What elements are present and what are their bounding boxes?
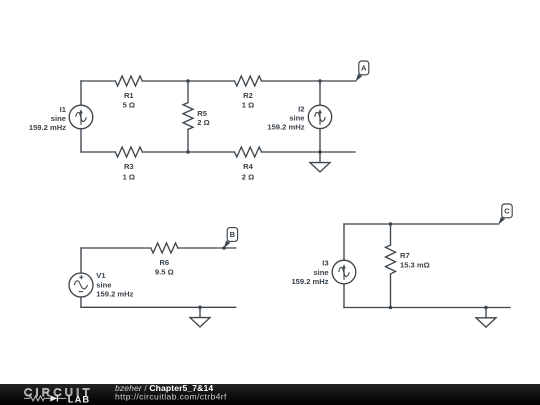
voltage source V1 sine glyph: [74, 281, 87, 289]
wire I3 left rail lower: [343, 284, 345, 308]
svg-text:A: A: [361, 64, 367, 73]
svg-text:R7: R7: [400, 251, 410, 260]
resistor R3: [115, 147, 142, 157]
svg-text:C: C: [504, 207, 510, 216]
svg-text:I3: I3: [322, 259, 328, 268]
svg-text:R2: R2: [243, 91, 253, 100]
svg-text:V1: V1: [96, 271, 106, 280]
logo resistor zigzag: [24, 396, 50, 401]
svg-text:R4: R4: [243, 162, 253, 171]
current source I1 arrow: [80, 113, 82, 125]
current source I3 circle: [332, 260, 356, 284]
current source I2 arrow: [319, 113, 321, 125]
svg-text:159.2 mHz: 159.2 mHz: [291, 277, 328, 286]
svg-text:5 Ω: 5 Ω: [123, 101, 135, 110]
flag C box: [502, 204, 512, 218]
flag A box: [359, 61, 369, 75]
resistor R7 vertical: [390, 224, 392, 245]
node dot bottom rail left: [186, 150, 190, 154]
voltage source V1 circle: [69, 273, 93, 297]
current source I2 sine glyph: [315, 112, 325, 121]
svg-text:sine: sine: [96, 280, 111, 289]
wire top rail segment 1: [81, 80, 115, 82]
current source I3 sine glyph: [339, 267, 349, 276]
wire top rail segment 2: [142, 80, 234, 82]
svg-text:I2: I2: [298, 105, 304, 114]
svg-text:R5: R5: [197, 109, 207, 118]
node dot ground bottom-left: [198, 306, 202, 310]
resistor R2: [235, 76, 262, 86]
node dot top rail right: [318, 79, 322, 83]
wire left rail top circuit (upper): [80, 81, 82, 105]
resistor R5 vertical: [187, 81, 189, 103]
ground (bottom-right circuit): [485, 308, 487, 318]
svg-text:R6: R6: [159, 258, 169, 267]
svg-text:sine: sine: [289, 114, 304, 123]
svg-text:LAB: LAB: [68, 395, 90, 405]
svg-text:159.2 mHz: 159.2 mHz: [29, 123, 66, 132]
voltage source V1 plus sign: [79, 276, 83, 278]
svg-text:sine: sine: [51, 114, 66, 123]
svg-text:B: B: [230, 230, 236, 239]
current source I1 circle: [69, 105, 93, 129]
svg-text:1 Ω: 1 Ω: [123, 172, 135, 181]
wire C bottom rail: [344, 307, 510, 309]
svg-text:15.3 mΩ: 15.3 mΩ: [400, 261, 430, 270]
wire bottom rail segment 3: [262, 151, 356, 153]
current source I2 wires: [319, 81, 321, 105]
flag A pointer: [356, 74, 363, 82]
current source I3 arrow: [343, 268, 345, 280]
svg-text:2 Ω: 2 Ω: [197, 118, 209, 127]
svg-text:R3: R3: [124, 162, 134, 171]
wire bottom rail segment 1: [81, 151, 115, 153]
wire I3 left rail upper: [343, 224, 345, 260]
svg-text:sine: sine: [313, 268, 328, 277]
wire bottom rail segment 2: [142, 151, 234, 153]
wire top rail segment 3: [262, 80, 357, 82]
svg-text:I1: I1: [60, 105, 67, 114]
wire B top rail 2: [178, 247, 236, 249]
ground (top circuit): [319, 152, 321, 163]
svg-text:1 Ω: 1 Ω: [242, 101, 254, 110]
wire left rail top circuit (lower): [80, 129, 82, 152]
svg-text:159.2 mHz: 159.2 mHz: [267, 123, 304, 132]
svg-text:R1: R1: [124, 91, 134, 100]
node dot R7 bottom: [389, 306, 393, 310]
svg-text:2 Ω: 2 Ω: [242, 172, 254, 181]
flag B box: [227, 228, 237, 242]
wire V1 left rail upper: [80, 248, 82, 273]
logo diode: [50, 395, 57, 401]
svg-text:159.2 mHz: 159.2 mHz: [96, 290, 133, 299]
wire B bottom rail: [81, 306, 236, 308]
wire B top rail 1: [81, 247, 151, 249]
svg-text:http://circuitlab.com/ctrb4rf: http://circuitlab.com/ctrb4rf: [115, 392, 227, 402]
node dot flag B attach: [222, 246, 226, 250]
resistor R6: [151, 243, 178, 253]
node dot bottom rail right: [318, 150, 322, 154]
current source I2 circle: [308, 105, 331, 128]
node dot R7 top: [389, 222, 393, 226]
resistor R4: [235, 147, 262, 157]
current source I1 sine glyph: [76, 112, 86, 121]
resistor R1: [115, 76, 142, 86]
ground (bottom-left circuit): [199, 307, 201, 317]
flag B pointer: [224, 241, 231, 249]
voltage source V1 minus sign: [79, 291, 83, 293]
wire V1 left rail lower: [80, 297, 82, 307]
flag C pointer: [498, 217, 505, 225]
svg-text:9.5 Ω: 9.5 Ω: [155, 268, 174, 277]
node dot ground bottom-right: [484, 306, 488, 310]
node dot top rail left: [186, 79, 190, 83]
wire C top rail: [344, 223, 499, 225]
